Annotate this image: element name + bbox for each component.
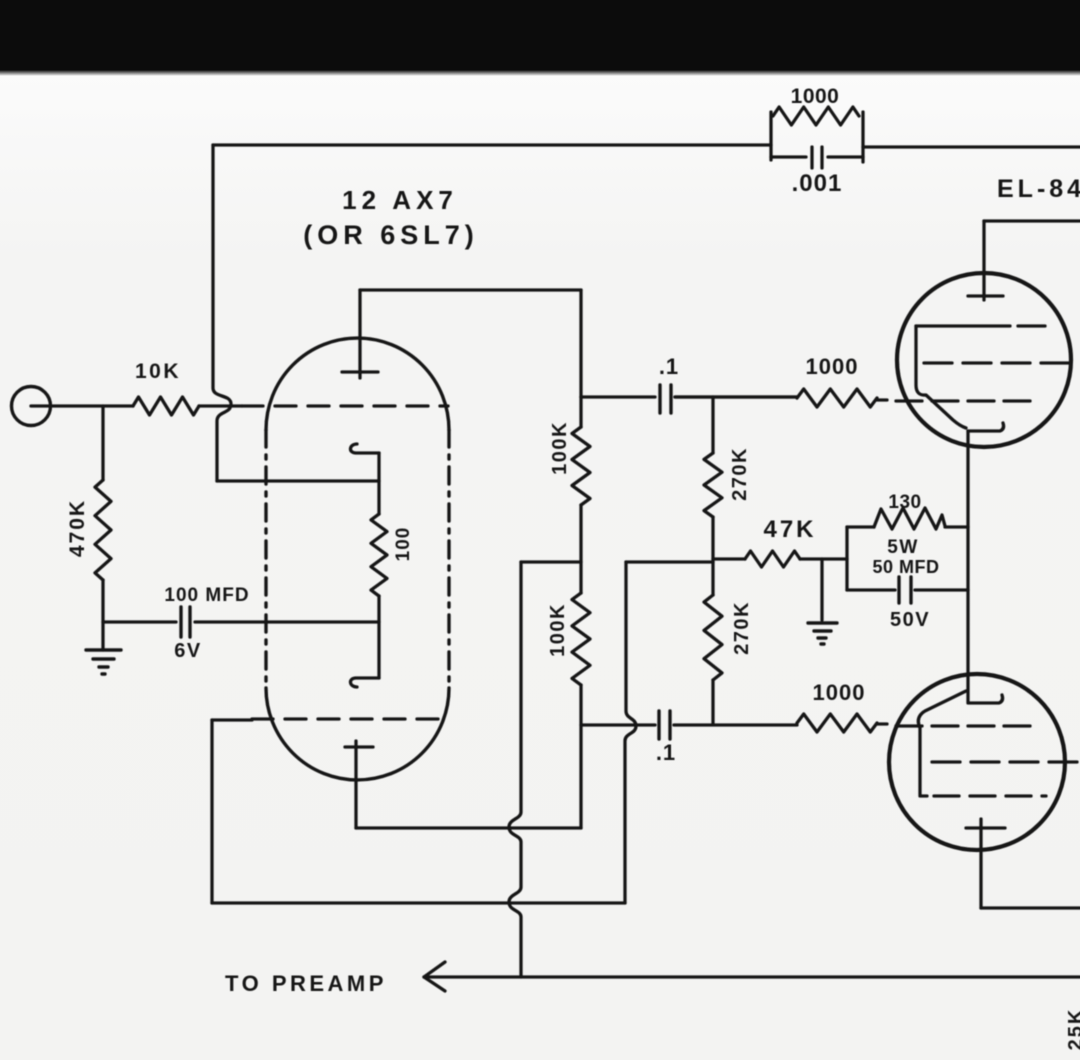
wire: network bottom branch right: [828, 155, 863, 158]
wire: U2 cathode down to bias and U3 cathode: [966, 431, 969, 703]
wire: top feedback line right segment to edge: [863, 145, 1080, 148]
suppressor lead of U2 with hop to cathode: [916, 326, 966, 428]
grid 1 of U1 (dashed): [242, 404, 448, 407]
svg-text:100K: 100K: [549, 421, 571, 475]
wire: 270K junction: [711, 517, 714, 595]
svg-text:.001: .001: [792, 170, 843, 197]
cathode of U2 hook: [968, 423, 1004, 431]
wire: 100K no.1 to B+ node: [579, 505, 582, 593]
svg-text:1000: 1000: [806, 354, 859, 379]
wire: 47K to bias network: [800, 557, 847, 560]
svg-text:1000: 1000: [791, 85, 840, 108]
ground G2: [808, 623, 837, 644]
tube U1 envelope right side (dashed): [447, 430, 450, 688]
node bar right of feedback network: [861, 112, 864, 162]
node bar left of feedback network: [769, 112, 772, 160]
svg-text:50V: 50V: [890, 609, 930, 631]
wire: divider mid to 47K: [713, 557, 745, 560]
wire: plate node to upper .1 cap: [581, 395, 655, 398]
wire: 10K to grid (passes under hop): [199, 404, 242, 407]
wire: B+ node tee to preamp drop: [521, 560, 581, 563]
capacitor C4 50MFD plates: [899, 577, 911, 603]
wire: ground node to 100MFD cap: [103, 620, 176, 623]
svg-text:12 AX7: 12 AX7: [342, 185, 458, 215]
wire: bias top branch right: [945, 525, 968, 528]
wire: lower .1 cap to divider bottom: [674, 723, 797, 726]
svg-text:5W: 5W: [887, 537, 919, 558]
cathode of U3 hook: [969, 695, 1003, 703]
tube U2 EL-84 envelope: [897, 273, 1071, 447]
resistor R8 47K: [745, 551, 800, 567]
wire: plate 2 to lower 100K: [356, 826, 581, 829]
wire: bias top branch left: [847, 525, 874, 528]
wire: bias bottom branch left: [847, 588, 895, 591]
screen of U2 (dashed to edge): [924, 361, 1080, 364]
suppressor of U3 (dashed): [934, 794, 1046, 797]
resistor R7 270K lower: [704, 595, 722, 680]
cathode 2 of U1 hook: [350, 678, 379, 687]
wire: 100 ohm to bypass node and grid2 hook: [377, 596, 380, 678]
svg-text:50 MFD: 50 MFD: [872, 557, 939, 577]
grid 2 of U1 wire from left: [212, 718, 252, 721]
suppressor lead of U3 with hop from cathode: [918, 691, 966, 796]
wire: U3 plate lead down: [979, 819, 982, 908]
wire: network bottom branch left: [771, 155, 806, 158]
svg-text:130: 130: [888, 492, 921, 513]
capacitor C3 .1 lower plates: [659, 711, 670, 739]
svg-text:100: 100: [393, 527, 414, 562]
wire: B+ drop with two crossover hops to preamp line: [509, 562, 521, 977]
svg-text:TO PREAMP: TO PREAMP: [225, 971, 387, 996]
wire: plate 1 lead up: [358, 290, 361, 378]
grid 2 of U1 (dashed): [252, 717, 448, 720]
wire: top feedback line left segment: [213, 143, 771, 146]
svg-text:1000: 1000: [813, 680, 866, 705]
black letterbox bar: [0, 0, 1080, 76]
cathode 1 of U1 hook: [350, 444, 379, 453]
plate of U3 bar: [966, 826, 1005, 829]
arrowhead to preamp: [424, 962, 445, 991]
resistor R6 270K upper: [704, 453, 722, 517]
wire: grid 2 feed bottom horizontal: [212, 901, 625, 904]
wire: bias bottom branch right: [915, 588, 968, 591]
wire: grid 2 feed riser with crossover hop: [625, 562, 636, 903]
wire: 270K no.2 to lower coupling node: [711, 680, 714, 723]
tube U1 envelope bottom arc: [266, 688, 449, 780]
svg-text:EL-84: EL-84: [997, 175, 1080, 203]
wire: ground drop at 47K node: [820, 559, 823, 620]
wire: plate 2 lead down: [354, 741, 357, 828]
wire: 1000 grid resistor feed upper: [675, 395, 797, 398]
svg-text:6V: 6V: [174, 640, 201, 662]
ground G1: [86, 650, 121, 674]
tube U3 EL-84 envelope: [889, 674, 1065, 850]
svg-text:47K: 47K: [763, 516, 816, 543]
wire: grid 2 feed vertical: [210, 720, 213, 903]
svg-text:270K: 270K: [731, 601, 753, 655]
resistor R1 10K: [133, 397, 199, 415]
resistor R-FB 1000 (top feedback): [773, 107, 859, 125]
svg-text:100K: 100K: [547, 603, 569, 657]
wire: U3 plate line to edge: [981, 906, 1080, 909]
wire: jack to 10K resistor: [31, 404, 133, 407]
wire: feedback to cathode of U1: [217, 479, 379, 482]
resistor R10 1000 (U2 grid): [797, 389, 877, 407]
wire: plate 1 line to 100K column: [360, 288, 581, 291]
suppressor of U2 (solid+dash): [916, 324, 1045, 327]
wire: B+ line to preamp with arrow: [424, 975, 1080, 978]
resistor R2 470K: [95, 480, 111, 580]
capacitor C-FB .001 plates: [812, 147, 822, 168]
grid of U3 (dashed): [877, 722, 887, 725]
svg-text:.1: .1: [656, 740, 676, 765]
bias network left bar: [845, 527, 848, 590]
svg-text:270K: 270K: [729, 447, 751, 501]
tube U1 envelope left side (dashed): [264, 430, 267, 688]
resistor R11 1000 (U3 grid): [797, 714, 877, 732]
plate of U2 bar: [968, 294, 1003, 297]
capacitor C1 100MFD plates: [181, 607, 190, 637]
wire: jack junction down to 470K: [101, 406, 104, 480]
wire: divider top node down: [711, 397, 714, 453]
input jack J1: [12, 387, 51, 426]
resistor R9 130 5W: [874, 508, 945, 529]
wire: feedback vertical drop with crossover hop at grid wire: [213, 145, 231, 481]
wire: upper .1 cap to divider top: [675, 395, 797, 398]
wire: 100K no.2 down to plate 2 wire: [579, 685, 582, 828]
resistor R5 100K lower: [572, 593, 590, 685]
wire: cathode 1 down to 100 ohm: [377, 453, 380, 514]
svg-text:470K: 470K: [66, 499, 89, 557]
resistor R3 100 (cathode): [371, 514, 387, 596]
grid of U2 (dashed): [877, 398, 887, 401]
capacitor C2 .1 upper plates: [660, 385, 671, 413]
wire: 100MFD to cathode node: [195, 620, 379, 623]
wire: grid 2 feed top horizontal to divider: [626, 560, 713, 563]
resistor R4 100K upper: [572, 427, 590, 505]
svg-text:100 MFD: 100 MFD: [164, 585, 249, 606]
plate 1 of U1 bar: [342, 370, 378, 373]
wire: plate line down to coupling node: [579, 290, 582, 397]
svg-text:10K: 10K: [135, 360, 181, 383]
plate 2 of U1 bar: [345, 745, 373, 748]
wire: 470K down to ground: [101, 580, 104, 650]
tube U1 12AX7 envelope top arc: [266, 338, 449, 430]
wire: U2 plate line to edge: [984, 219, 1080, 222]
svg-text:(OR 6SL7): (OR 6SL7): [303, 220, 479, 250]
svg-text:.1: .1: [659, 354, 679, 379]
wire: lower plate node to lower .1 cap: [581, 723, 655, 726]
svg-text:25K: 25K: [1065, 1008, 1080, 1051]
wire: U2 plate lead: [982, 221, 985, 300]
wire: coupling node to 100K no.1: [579, 397, 582, 427]
screen of U3 (dashed to edge): [932, 760, 1080, 763]
